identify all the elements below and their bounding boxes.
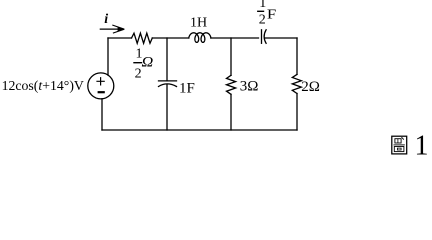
svg-text:12cos(t+14°)V: 12cos(t+14°)V [2,78,84,94]
svg-text:i: i [104,12,108,27]
svg-text:1H: 1H [190,16,207,31]
svg-text:2Ω: 2Ω [301,79,320,95]
svg-text:F: F [267,7,277,22]
svg-text:Ω: Ω [142,54,154,70]
svg-text:2: 2 [259,12,266,27]
svg-text:1: 1 [259,0,266,11]
svg-text:3Ω: 3Ω [240,79,259,95]
svg-text:1F: 1F [179,81,195,97]
svg-text:1: 1 [415,130,429,161]
